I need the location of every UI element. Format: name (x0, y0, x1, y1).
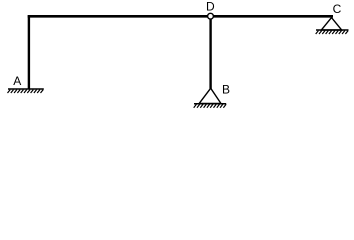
svg-text:B: B (222, 83, 230, 97)
beam member (horizontal top, A-corner to C) (28, 15, 333, 18)
pin support B (triangle on hatched ground) (194, 88, 227, 108)
node label A (13, 74, 21, 88)
member D-B (vertical, middle) (209, 16, 211, 88)
pin support C (triangle on hatched ground, right end of beam) (316, 18, 349, 34)
hinge D (white-filled circle) (208, 13, 214, 19)
column member A (vertical, left) (28, 15, 30, 89)
svg-text:C: C (333, 2, 342, 16)
node label B (222, 83, 230, 97)
svg-text:D: D (206, 0, 215, 13)
node label C (333, 2, 342, 16)
svg-text:A: A (13, 74, 21, 88)
node label D (206, 0, 215, 13)
fixed support A (ground line with hatching) (8, 89, 44, 93)
